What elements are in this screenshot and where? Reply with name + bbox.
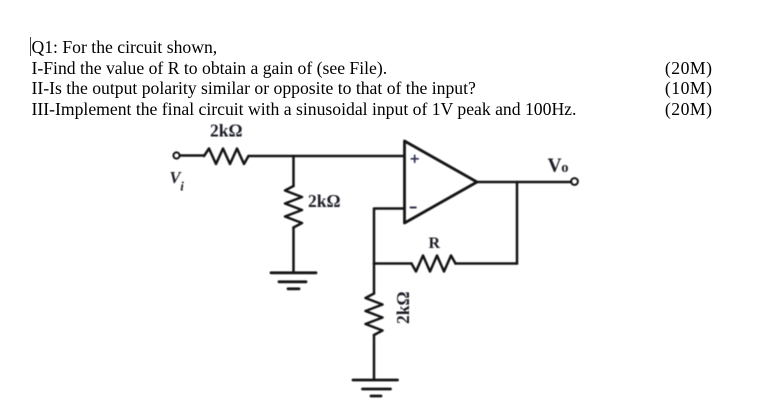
svg-text:V: V xyxy=(548,156,562,177)
svg-text:i: i xyxy=(180,179,184,194)
svg-text:o: o xyxy=(561,160,568,176)
svg-text:R: R xyxy=(429,235,441,252)
svg-text:2kΩ: 2kΩ xyxy=(308,191,341,211)
svg-text:2kΩ: 2kΩ xyxy=(393,292,413,325)
svg-text:2kΩ: 2kΩ xyxy=(210,121,243,141)
